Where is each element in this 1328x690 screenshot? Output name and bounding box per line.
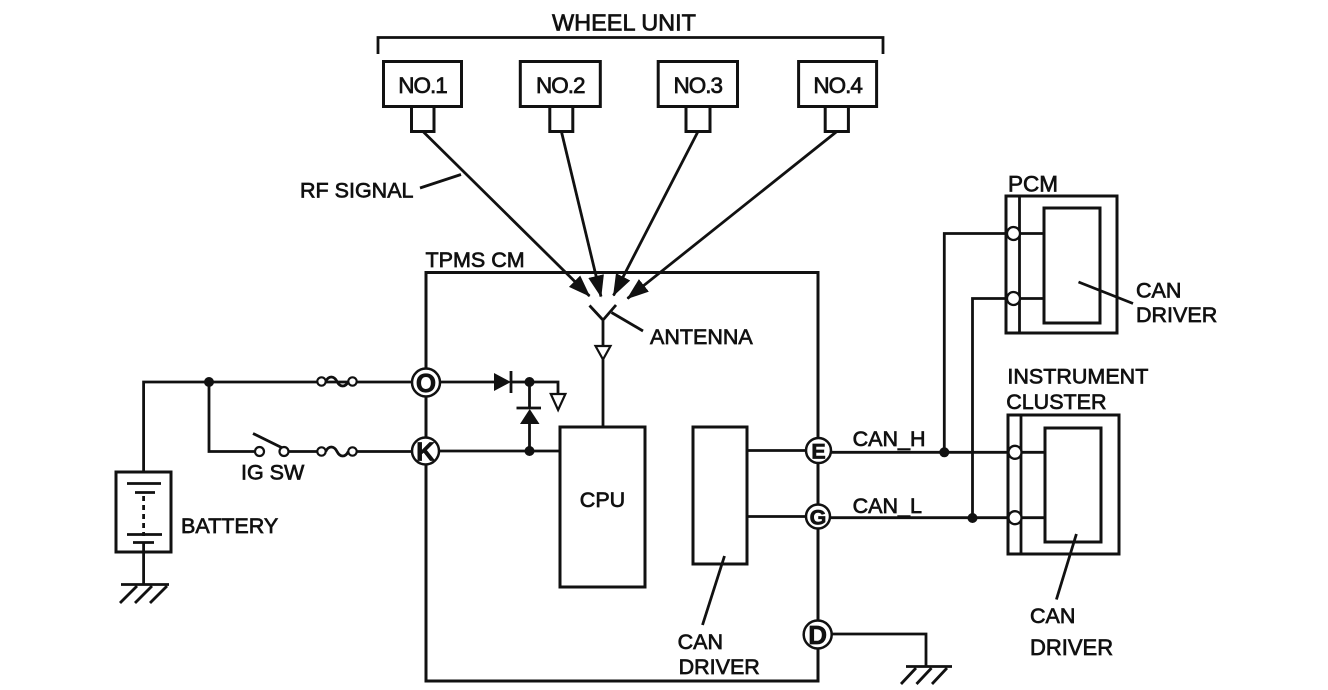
RF signal line from NO.4 xyxy=(628,132,837,299)
CPU U1 xyxy=(560,427,645,587)
PCM connector strip xyxy=(1018,196,1021,333)
svg-text:CAN: CAN xyxy=(1030,604,1075,628)
wheel unit NO.3 box xyxy=(658,62,737,132)
PCM pin1 xyxy=(1007,227,1020,240)
pin E xyxy=(747,438,831,463)
internal supply arrow xyxy=(530,382,566,410)
svg-text:RF SIGNAL: RF SIGNAL xyxy=(300,178,414,202)
label CAN DRIVER (TPMS CM) xyxy=(678,556,760,679)
wire F2 to pin K xyxy=(357,450,412,453)
svg-text:IG SW: IG SW xyxy=(241,461,305,485)
diode D2 xyxy=(517,382,542,451)
battery BT1 xyxy=(116,472,171,552)
svg-text:O: O xyxy=(416,368,436,398)
CAN driver (TPMS CM) xyxy=(693,427,747,564)
svg-text:G: G xyxy=(810,505,827,529)
svg-text:INSTRUMENT: INSTRUMENT xyxy=(1007,365,1148,389)
label INSTRUMENT CLUSTER xyxy=(1006,365,1148,415)
pin K xyxy=(412,437,439,467)
label CAN DRIVER (PCM) xyxy=(1079,279,1218,328)
junction dot CAN_L xyxy=(968,513,978,523)
svg-text:DRIVER: DRIVER xyxy=(679,655,760,679)
fuse F2 xyxy=(317,447,356,456)
svg-text:TPMS CM: TPMS CM xyxy=(426,248,525,272)
svg-text:K: K xyxy=(416,437,435,467)
svg-text:BATTERY: BATTERY xyxy=(181,514,278,538)
wire PCM pin2 xyxy=(1020,297,1044,300)
wire CAN_L xyxy=(830,516,1008,519)
cluster pin2 xyxy=(1009,511,1022,524)
pin O xyxy=(412,368,440,398)
wire junction down to IG SW xyxy=(209,382,255,452)
antenna xyxy=(590,305,617,427)
svg-text:D: D xyxy=(808,620,827,650)
RF signal line from NO.3 xyxy=(614,132,699,296)
svg-text:CAN: CAN xyxy=(1136,279,1181,303)
svg-text:CAN_L: CAN_L xyxy=(853,494,922,518)
junction dot node B+ xyxy=(204,377,214,387)
wire cluster pin1 xyxy=(1022,451,1046,454)
PCM box xyxy=(1006,196,1117,333)
wire CAN_L to PCM xyxy=(973,299,1008,519)
svg-text:E: E xyxy=(811,439,825,463)
wire PCM pin1 xyxy=(1020,232,1044,235)
svg-text:NO.4: NO.4 xyxy=(813,73,862,98)
pin D xyxy=(804,620,832,650)
diode D1 xyxy=(494,371,527,393)
wheel unit NO.4 box xyxy=(799,62,877,132)
svg-text:PCM: PCM xyxy=(1008,172,1058,197)
PCM CAN driver box xyxy=(1044,208,1100,323)
svg-text:NO.2: NO.2 xyxy=(536,73,585,98)
bracket over wheel units xyxy=(378,38,883,55)
svg-text:CAN: CAN xyxy=(678,630,723,654)
junction dot node K xyxy=(525,446,535,456)
svg-text:ANTENNA: ANTENNA xyxy=(650,325,753,349)
svg-text:WHEEL UNIT: WHEEL UNIT xyxy=(552,10,696,36)
wheel unit NO.2 box xyxy=(520,62,600,132)
svg-text:DRIVER: DRIVER xyxy=(1136,303,1217,327)
wire CAN_H to PCM xyxy=(944,234,1007,453)
cluster CAN driver box xyxy=(1045,428,1101,542)
junction dot CAN_H xyxy=(939,447,949,457)
svg-text:DRIVER: DRIVER xyxy=(1030,635,1113,660)
svg-text:CAN_H: CAN_H xyxy=(853,427,926,451)
wire pin K to CPU xyxy=(439,450,560,453)
ground (battery) xyxy=(120,585,169,604)
wire pin O to diode D1 xyxy=(440,381,494,384)
RF signal line from NO.2 xyxy=(561,132,601,297)
wire battery to ground xyxy=(142,543,145,585)
wire battery to junction xyxy=(144,382,412,484)
fuse F1 xyxy=(317,377,356,386)
switch IG SW xyxy=(253,434,317,457)
junction dot node D1K xyxy=(525,377,535,387)
RF signal line from NO.1 xyxy=(423,132,590,297)
wire CAN_H xyxy=(831,451,1008,454)
wire cluster pin2 xyxy=(1022,516,1046,519)
svg-text:NO.3: NO.3 xyxy=(674,73,723,98)
PCM pin2 xyxy=(1007,292,1020,305)
pin G xyxy=(747,505,830,530)
wheel unit NO.1 box xyxy=(384,62,462,132)
label CAN DRIVER (cluster) xyxy=(1030,534,1113,660)
ground (pin D) xyxy=(901,667,952,685)
svg-text:CPU: CPU xyxy=(580,488,625,512)
wire pin D to ground xyxy=(832,634,926,667)
wire antenna to CPU xyxy=(602,360,605,428)
cluster pin1 xyxy=(1009,446,1022,459)
instrument cluster box xyxy=(1008,415,1119,554)
label ANTENNA xyxy=(612,313,754,350)
svg-text:CLUSTER: CLUSTER xyxy=(1006,390,1106,414)
cluster connector strip xyxy=(1020,415,1023,554)
TPMS CM enclosure xyxy=(426,248,819,681)
svg-text:NO.1: NO.1 xyxy=(398,73,447,98)
label RF SIGNAL xyxy=(300,175,461,203)
